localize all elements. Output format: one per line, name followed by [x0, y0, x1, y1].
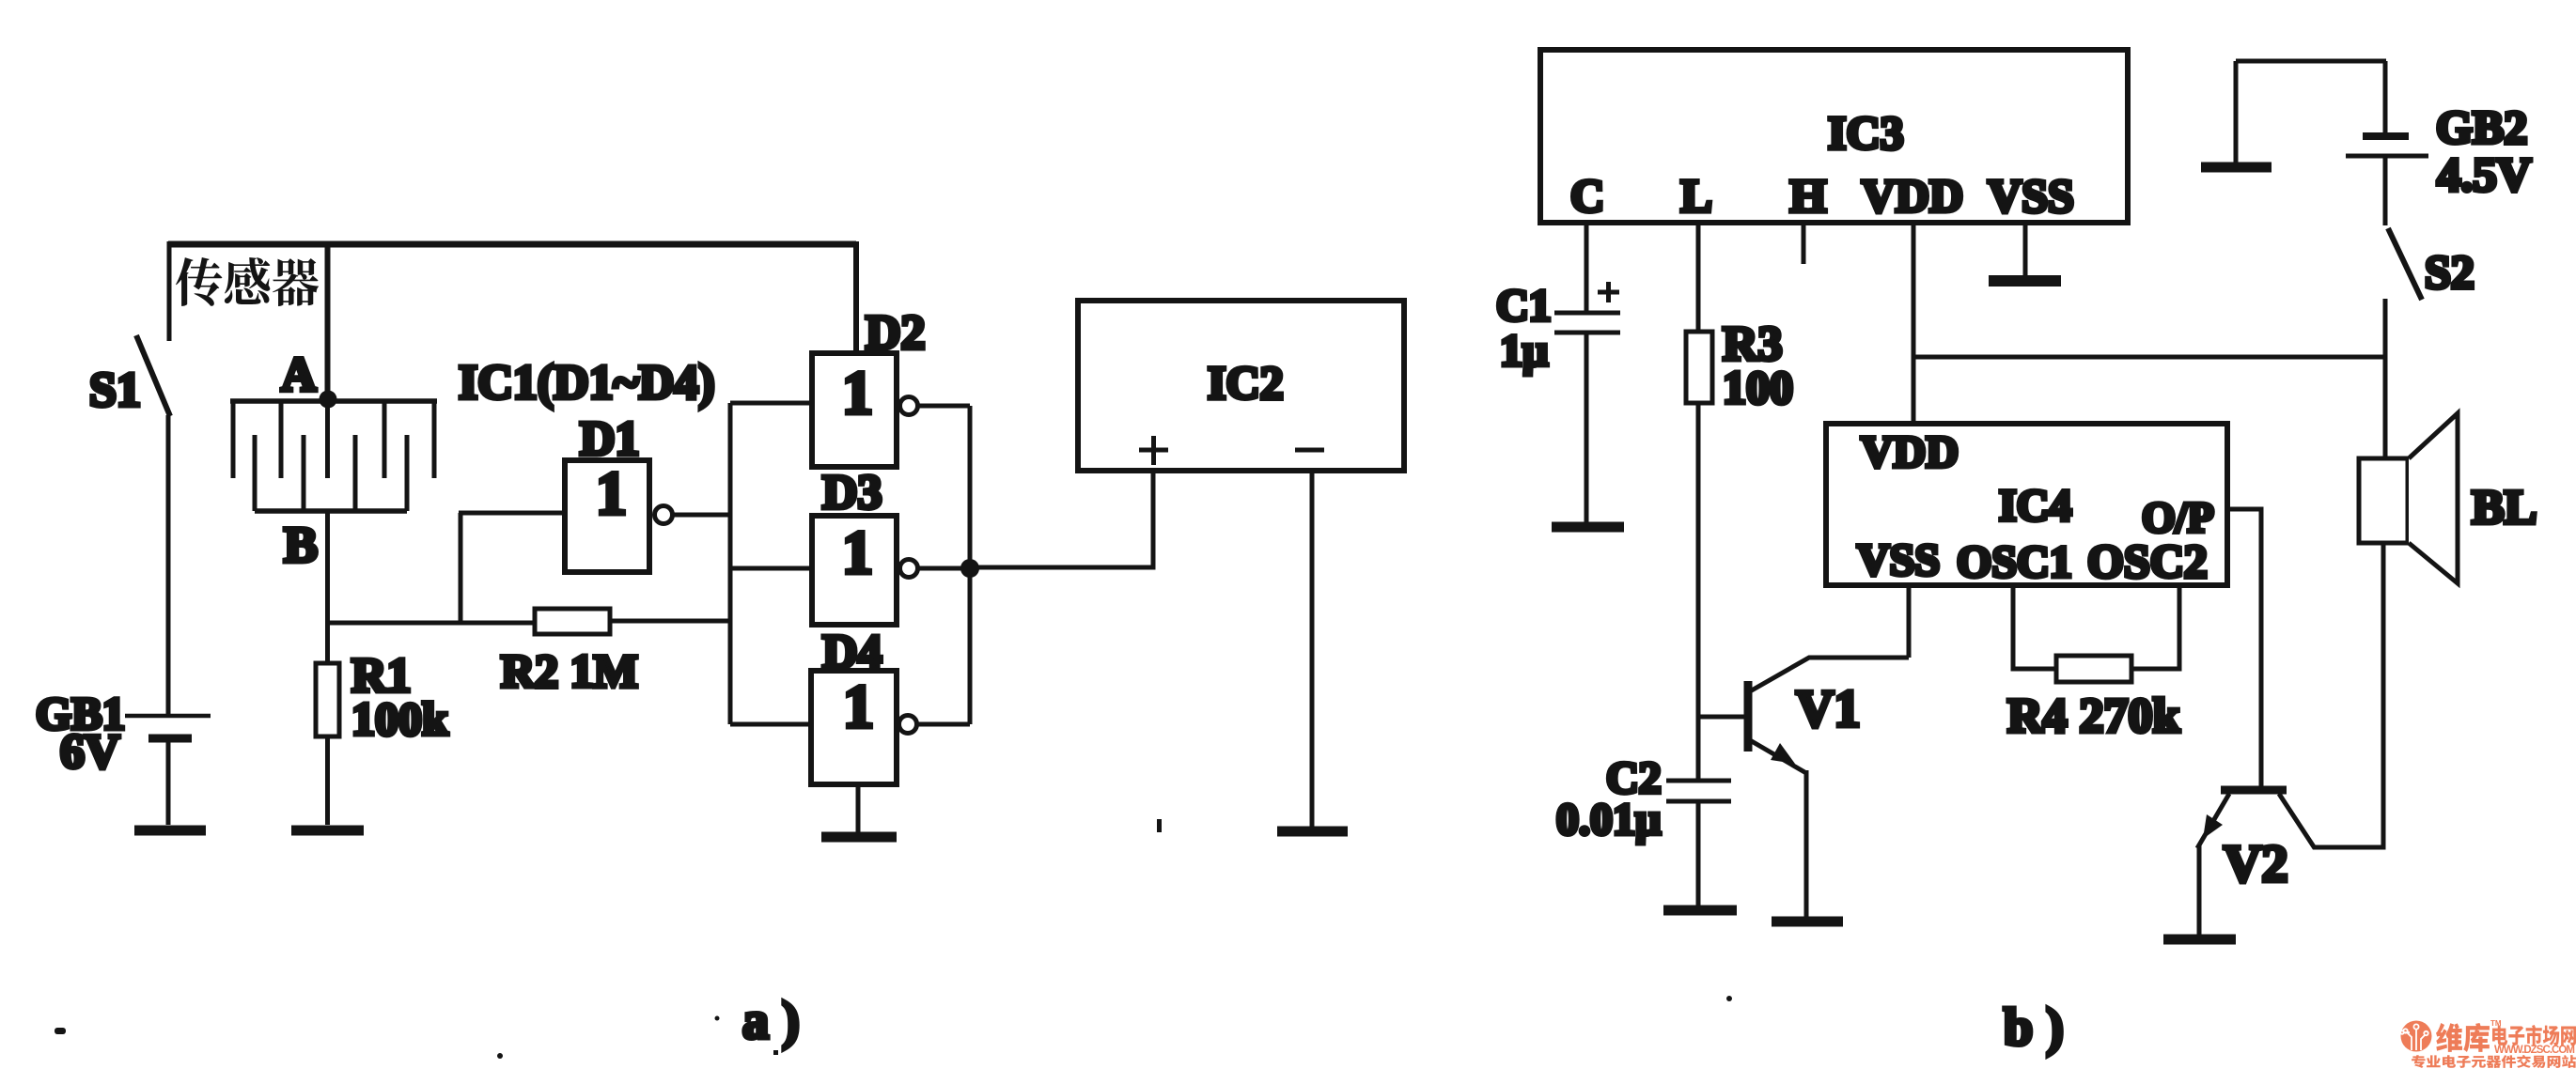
- wire R4 to OSC2: [2131, 585, 2179, 669]
- wire GB2 to S2: [2383, 157, 2388, 225]
- wire C pin to C1: [1585, 223, 1589, 311]
- svg-text:R2 1M: R2 1M: [501, 644, 638, 697]
- wire D2 input: [730, 401, 812, 406]
- battery GB2: [2346, 136, 2428, 156]
- svg-text:BL: BL: [2472, 481, 2537, 534]
- switch S1 blade: [136, 335, 170, 416]
- wire C2 to ground: [1696, 801, 1701, 906]
- inverter D4 output bubble: [899, 716, 917, 734]
- IC2 plus terminal: [1139, 436, 1168, 465]
- wire OSC1 pin down: [2013, 585, 2056, 669]
- svg-text:D3: D3: [822, 466, 882, 519]
- wire C1 to ground: [1585, 333, 1589, 522]
- wire D3 input: [730, 566, 812, 571]
- svg-text:WWW.DZSC.COM: WWW.DZSC.COM: [2494, 1045, 2575, 1056]
- wire junction up to D1 input: [459, 513, 463, 623]
- capacitor C2 plates: [1666, 781, 1731, 801]
- wire R1 top to R2: [328, 621, 536, 626]
- inverter D3 output bubble: [900, 560, 918, 578]
- IC3 box: [1540, 50, 2128, 223]
- watermark logo circle: [2401, 1021, 2432, 1052]
- wire D2 output: [918, 404, 970, 409]
- sensor electrode top bar: [230, 398, 437, 404]
- svg-text:100k: 100k: [351, 692, 448, 745]
- svg-text:0.01μ: 0.01μ: [1556, 795, 1661, 844]
- wire into GB2: [2383, 61, 2388, 133]
- svg-text:GB2: GB2: [2436, 101, 2527, 153]
- wire R2 to common input line: [610, 619, 730, 624]
- resistor R3 body: [1686, 332, 1712, 403]
- label R3 100: [1723, 318, 1793, 413]
- wire V1 emitter to ground: [1804, 770, 1809, 917]
- speck marks: [55, 819, 1732, 1059]
- label C2 0.01u: [1556, 753, 1662, 844]
- svg-text:S1: S1: [89, 364, 141, 417]
- svg-text:IC4: IC4: [1999, 481, 2071, 531]
- inverter D1 box: [565, 460, 649, 572]
- svg-text:6V: 6V: [60, 725, 120, 779]
- wire B to R1: [325, 511, 330, 663]
- label sensor 传感器: [176, 257, 319, 306]
- wire H pin stub: [1802, 223, 1806, 264]
- battery GB1: [125, 716, 211, 738]
- wire IC4 VSS pin down: [1907, 585, 1912, 658]
- label GB2 4.5V: [2436, 101, 2532, 202]
- svg-text:IC2: IC2: [1208, 356, 1284, 409]
- sensor top teeth: [233, 401, 434, 478]
- inverter D2 output bubble: [900, 397, 918, 415]
- ground D4: [821, 832, 897, 843]
- wire D1 input: [459, 511, 565, 516]
- inverter D2 box: [812, 353, 897, 467]
- svg-text:V1: V1: [1796, 680, 1860, 738]
- inverter D3 box: [812, 516, 897, 625]
- svg-text:1: 1: [596, 459, 627, 528]
- transistor V2 base bar: [2221, 786, 2287, 795]
- speaker BL horn: [2409, 413, 2458, 583]
- label R1 100k: [351, 649, 448, 745]
- svg-text:IC1(D1~D4): IC1(D1~D4): [459, 356, 715, 410]
- wire D4 to ground: [856, 784, 861, 832]
- svg-text:OSC1: OSC1: [1957, 537, 2072, 587]
- svg-text:100: 100: [1723, 361, 1793, 413]
- svg-text:V2: V2: [2224, 835, 2287, 893]
- svg-text:C: C: [1570, 169, 1604, 222]
- wire VSS pin to ground: [2023, 223, 2028, 276]
- svg-text:OSC2: OSC2: [2087, 534, 2208, 587]
- wire node to IC2 plus: [970, 471, 1153, 567]
- svg-text:A: A: [281, 349, 317, 402]
- ground C2: [1663, 906, 1737, 916]
- wire common input vertical: [728, 403, 733, 724]
- wire S1 to GB1: [166, 415, 171, 715]
- svg-text:VSS: VSS: [1988, 169, 2074, 222]
- wire D4 output: [917, 722, 970, 727]
- svg-text:VDD: VDD: [1862, 169, 1963, 222]
- wire R3 down to C2: [1696, 403, 1701, 781]
- wire L pin to R3: [1696, 223, 1701, 332]
- inverter D1 output bubble: [655, 506, 673, 524]
- IC2 box: [1078, 301, 1404, 471]
- watermark logo circuit pattern: [2400, 1024, 2428, 1050]
- node junction dot outputs: [960, 559, 979, 578]
- wire S2 to speaker: [2383, 299, 2388, 458]
- switch S2 blade: [2388, 228, 2422, 300]
- transistor V2 emitter with arrow: [2197, 794, 2229, 848]
- watermark slogan 专业电子元器件交易网站: [2412, 1055, 2576, 1068]
- svg-text:C1: C1: [1496, 281, 1552, 331]
- wire VDD rail to S2: [1913, 355, 2385, 360]
- resistor R4 body: [2056, 656, 2131, 682]
- IC4 box: [1826, 424, 2227, 585]
- IC2 minus terminal: [1295, 448, 1324, 453]
- wire outputs vertical bus: [968, 406, 973, 724]
- watermark 电子市场网: [2492, 1025, 2576, 1046]
- wire sensor box left edge: [167, 241, 172, 341]
- svg-text:S2: S2: [2425, 245, 2475, 298]
- C1 plus mark: [1598, 282, 1619, 302]
- ground V1: [1772, 917, 1843, 927]
- wire V1 base: [1699, 715, 1744, 720]
- svg-text:H: H: [1790, 169, 1827, 222]
- transistor V2 collector: [2279, 794, 2315, 848]
- wire V2 collector to speaker: [2313, 543, 2383, 847]
- ground GB1: [134, 826, 206, 836]
- ground top rail: [2201, 163, 2272, 173]
- sensor electrode bottom bar: [255, 508, 407, 514]
- svg-text:4.5V: 4.5V: [2437, 149, 2532, 202]
- resistor R1 body: [316, 663, 339, 736]
- svg-text:1: 1: [842, 359, 873, 427]
- wire R1 to ground: [325, 736, 330, 825]
- capacitor C1 plates: [1554, 313, 1620, 333]
- svg-text:B: B: [284, 517, 318, 573]
- wire top rail a: [168, 241, 856, 248]
- wire O/P output: [2227, 509, 2261, 787]
- ground VSS: [1989, 275, 2061, 287]
- transistor V1 emitter with arrow: [1750, 740, 1806, 773]
- svg-text:a ): a ): [742, 992, 800, 1050]
- svg-text:b ): b ): [2004, 999, 2064, 1057]
- svg-text:1μ: 1μ: [1500, 326, 1548, 376]
- transistor V1 base bar: [1744, 681, 1753, 751]
- wire top rail corner down to D2: [853, 241, 859, 353]
- inverter D4 box: [811, 671, 897, 784]
- node A junction dot: [320, 391, 337, 409]
- wire D4 input: [730, 722, 812, 727]
- ground R1: [291, 826, 364, 836]
- wire node A vertical: [325, 244, 331, 401]
- svg-text:IC3: IC3: [1828, 106, 1904, 159]
- ground C1: [1552, 522, 1624, 533]
- wire GB2 top rail: [2236, 59, 2386, 64]
- label C1 1u: [1496, 281, 1552, 376]
- wire VDD pin down: [1912, 223, 1916, 424]
- svg-text:VDD: VDD: [1861, 427, 1959, 477]
- svg-text:R4 270k: R4 270k: [2007, 689, 2180, 743]
- sensor bottom teeth: [255, 435, 407, 511]
- watermark brand 维库: [2436, 1023, 2490, 1052]
- label GB1 6V: [36, 688, 125, 779]
- wire ground stub top: [2234, 61, 2239, 163]
- ground V2: [2163, 935, 2236, 945]
- wire D3 output: [918, 566, 970, 571]
- wire GB1 to ground: [166, 741, 171, 825]
- ground IC2: [1277, 827, 1348, 837]
- wire VSS to V1 collector: [1750, 658, 1909, 691]
- svg-text:L: L: [1680, 169, 1711, 222]
- svg-text:1: 1: [843, 673, 874, 741]
- svg-text:1: 1: [842, 519, 873, 587]
- speaker BL body: [2359, 458, 2408, 543]
- resistor R2 body: [535, 609, 610, 634]
- wire D1 output: [673, 513, 730, 518]
- svg-text:VSS: VSS: [1857, 535, 1940, 585]
- wire IC2 minus to ground: [1310, 471, 1315, 827]
- wire V2 emitter to ground: [2197, 845, 2202, 935]
